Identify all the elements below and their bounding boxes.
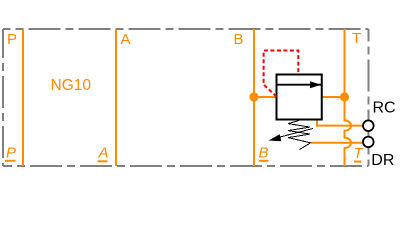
enclosure left border [2,29,4,166]
port line T upper [344,29,346,97]
svg-text:P: P [7,31,17,48]
port DR circle [363,137,374,148]
port line T lower with crossover hops [345,97,351,166]
port line A [115,29,117,166]
wire valve spring side to RC port [317,120,363,126]
adjustment arrow shaft [280,129,313,138]
enclosure right border [368,29,370,166]
valve flow arrowhead [310,81,321,88]
svg-text:A: A [121,31,131,48]
wire valve outlet to T node [322,96,345,98]
svg-text:NG10: NG10 [51,77,92,94]
underline B bottom [259,160,269,162]
pilot line (red dashed) [264,51,299,97]
svg-text:T: T [354,145,365,162]
spring [288,121,311,150]
junction dot node T [340,92,349,101]
port RC circle [363,120,374,131]
svg-text:A: A [98,145,109,162]
underline A bottom [98,160,108,162]
svg-text:T: T [352,30,361,47]
svg-text:B: B [259,145,269,162]
wire spring vent to DR port [311,142,363,144]
junction dot node B [249,92,258,101]
relief valve body V1 [277,75,322,120]
port line P [22,29,24,166]
enclosure top border [3,28,369,30]
enclosure bottom border [3,165,369,167]
underline T bottom [354,161,362,163]
svg-text:DR: DR [371,152,394,169]
port line B [253,29,255,166]
svg-text:RC: RC [373,99,396,116]
underline P bottom [5,160,16,162]
svg-text:B: B [234,31,244,48]
adjustment arrowhead [269,134,282,141]
valve flow path line [277,84,321,86]
svg-text:P: P [6,145,16,162]
wire B node to valve inlet [254,96,277,98]
